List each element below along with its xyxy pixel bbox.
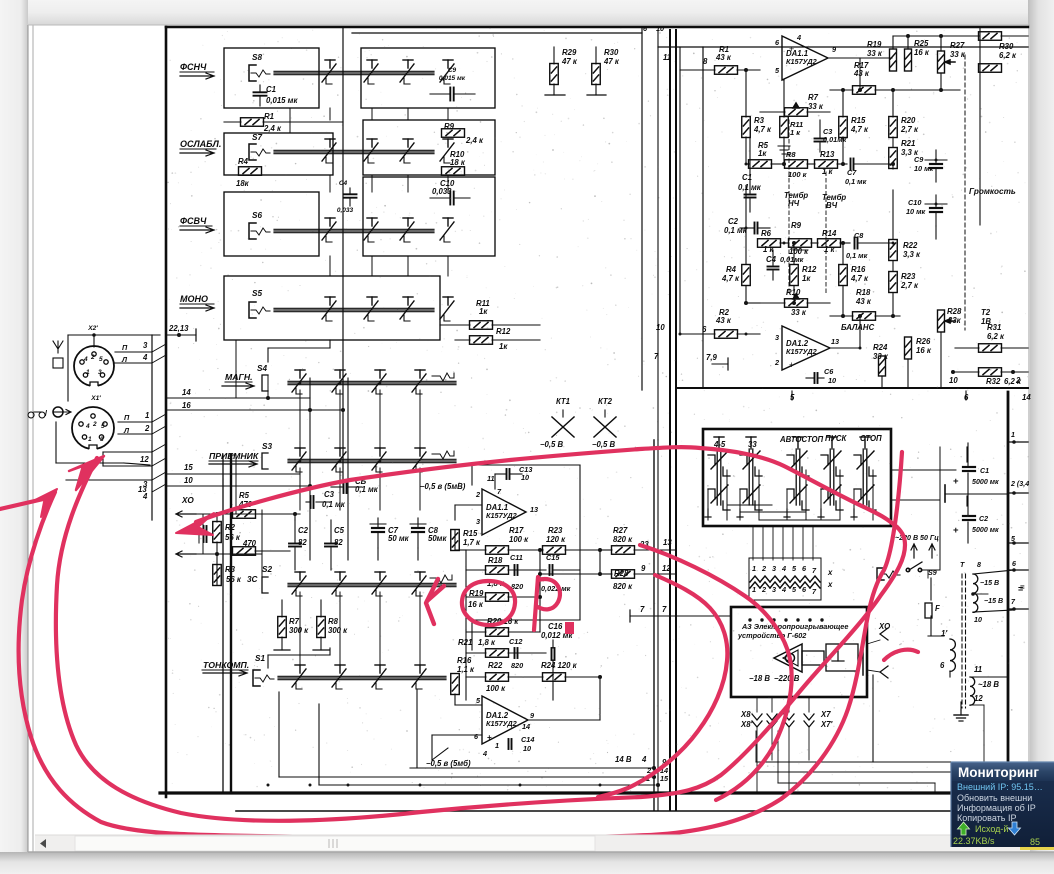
- svg-text:0,033: 0,033: [337, 207, 354, 214]
- svg-text:1к: 1к: [758, 149, 767, 158]
- svg-text:2: 2: [761, 564, 766, 573]
- svg-text:R9: R9: [791, 221, 802, 230]
- svg-text:4: 4: [796, 33, 801, 42]
- svg-text:1: 1: [88, 436, 92, 443]
- svg-text:6,2 к: 6,2 к: [999, 51, 1017, 60]
- svg-text:5000 мк: 5000 мк: [972, 526, 999, 534]
- svg-text:2: 2: [90, 354, 95, 361]
- svg-text:П: П: [122, 343, 128, 352]
- svg-text:C9: C9: [448, 67, 457, 74]
- svg-text:R16: R16: [457, 656, 472, 665]
- svg-text:15: 15: [660, 774, 669, 783]
- svg-text:0,015 мк: 0,015 мк: [266, 96, 298, 105]
- svg-text:8: 8: [703, 57, 708, 66]
- svg-text:10: 10: [656, 24, 664, 33]
- svg-text:0,1 мк: 0,1 мк: [355, 485, 379, 494]
- svg-text:S4: S4: [257, 364, 267, 373]
- svg-text:C16: C16: [548, 622, 563, 631]
- svg-text:S1: S1: [255, 654, 265, 663]
- svg-text:16 к: 16 к: [914, 48, 930, 57]
- svg-text:300 к: 300 к: [328, 626, 348, 635]
- svg-text:R16: R16: [851, 265, 866, 274]
- svg-text:2: 2: [92, 421, 97, 428]
- svg-text:13: 13: [831, 337, 839, 346]
- svg-text:−15 В: −15 В: [980, 579, 999, 587]
- svg-text:Обновить внешни: Обновить внешни: [957, 793, 1032, 803]
- svg-text:R15: R15: [463, 529, 478, 538]
- svg-text:82: 82: [334, 538, 343, 547]
- svg-text:Мониторинг: Мониторинг: [958, 765, 1039, 780]
- svg-text:14: 14: [522, 722, 530, 731]
- svg-text:Х7′: Х7′: [820, 720, 834, 729]
- svg-text:R8: R8: [786, 150, 796, 159]
- svg-text:10: 10: [184, 476, 193, 485]
- svg-text:7: 7: [662, 605, 667, 614]
- svg-text:ТОНКОМП.: ТОНКОМП.: [203, 660, 249, 670]
- svg-text:43 к: 43 к: [715, 316, 732, 325]
- svg-text:50 мк: 50 мк: [388, 534, 410, 543]
- svg-text:R29: R29: [562, 48, 577, 57]
- svg-text:3: 3: [143, 341, 148, 350]
- svg-text:6,2 к: 6,2 к: [987, 332, 1005, 341]
- svg-text:R24: R24: [873, 343, 888, 352]
- svg-text:R23: R23: [901, 272, 916, 281]
- svg-text:100 к: 100 к: [788, 170, 808, 179]
- svg-text:1: 1: [752, 585, 756, 594]
- svg-text:−0,5 В: −0,5 В: [540, 440, 564, 449]
- svg-text:C7: C7: [847, 168, 857, 177]
- svg-text:C15: C15: [546, 553, 560, 562]
- svg-text:МАГН.: МАГН.: [225, 372, 253, 382]
- svg-text:C14: C14: [521, 735, 534, 744]
- svg-text:R26: R26: [916, 337, 931, 346]
- svg-text:+: +: [953, 476, 959, 487]
- svg-text:3: 3: [772, 585, 776, 594]
- svg-text:3: 3: [98, 369, 102, 376]
- svg-text:12: 12: [974, 694, 983, 703]
- svg-text:МОНО: МОНО: [180, 294, 208, 304]
- svg-text:820: 820: [511, 661, 523, 670]
- svg-text:R4: R4: [726, 265, 737, 274]
- svg-text:R15: R15: [851, 116, 866, 125]
- svg-text:S5: S5: [252, 289, 262, 298]
- svg-text:ПУСК: ПУСК: [825, 434, 848, 443]
- svg-text:3: 3: [772, 564, 776, 573]
- svg-text:5000 мк: 5000 мк: [972, 478, 999, 486]
- svg-text:4: 4: [85, 423, 90, 430]
- svg-text:16: 16: [182, 401, 191, 410]
- svg-text:0,033: 0,033: [432, 187, 452, 196]
- svg-text:R21: R21: [458, 638, 472, 647]
- svg-text:5: 5: [99, 356, 103, 363]
- svg-text:1,8 к: 1,8 к: [478, 638, 496, 647]
- svg-text:R27: R27: [613, 526, 628, 535]
- svg-text:2 (3,4: 2 (3,4: [1010, 480, 1029, 488]
- svg-text:1: 1: [145, 411, 149, 420]
- svg-text:ФСВЧ: ФСВЧ: [180, 216, 207, 226]
- svg-text:C4: C4: [339, 180, 348, 187]
- svg-text:−0,5 в (5мВ): −0,5 в (5мВ): [420, 482, 466, 491]
- svg-text:1: 1: [1011, 431, 1015, 439]
- svg-text:13: 13: [663, 538, 672, 547]
- svg-text:33 к: 33 к: [867, 49, 883, 58]
- svg-text:4: 4: [83, 356, 88, 363]
- svg-text:0,1 мк: 0,1 мк: [845, 177, 867, 186]
- svg-text:R30: R30: [999, 42, 1014, 51]
- svg-text:33: 33: [748, 440, 757, 449]
- svg-text:10 мк: 10 мк: [906, 207, 926, 216]
- svg-text:Х8′: Х8′: [740, 720, 754, 729]
- svg-text:2,4 к: 2,4 к: [465, 136, 484, 145]
- svg-text:43 к: 43 к: [853, 69, 870, 78]
- svg-text:100 к: 100 к: [509, 535, 529, 544]
- svg-text:R12: R12: [496, 327, 511, 336]
- svg-text:18к: 18к: [236, 179, 250, 188]
- svg-text:R4: R4: [238, 157, 249, 166]
- svg-text:ХО: ХО: [181, 496, 194, 505]
- svg-text:R23: R23: [548, 526, 563, 535]
- svg-text:1к: 1к: [499, 342, 508, 351]
- svg-text:4,7 к: 4,7 к: [850, 125, 869, 134]
- svg-text:Громкость: Громкость: [969, 187, 1016, 196]
- svg-text:5: 5: [101, 423, 105, 430]
- svg-text:100 к: 100 к: [486, 684, 506, 693]
- svg-text:НЧ: НЧ: [788, 199, 800, 208]
- svg-text:R7: R7: [808, 93, 819, 102]
- svg-text:C1: C1: [266, 85, 276, 94]
- svg-text:R30: R30: [604, 48, 619, 57]
- svg-text:х: х: [827, 568, 833, 577]
- svg-text:R3: R3: [754, 116, 765, 125]
- svg-text:2: 2: [1015, 376, 1021, 385]
- svg-text:Копировать IP: Копировать IP: [957, 813, 1016, 823]
- svg-text:12: 12: [140, 455, 149, 464]
- svg-text:устройство Г-602: устройство Г-602: [737, 631, 806, 640]
- svg-text:К157УД2: К157УД2: [786, 347, 817, 356]
- svg-text:C8: C8: [854, 231, 864, 240]
- svg-text:S6: S6: [252, 211, 262, 220]
- svg-text:R21: R21: [901, 139, 915, 148]
- svg-text:85: 85: [1030, 837, 1040, 847]
- svg-text:10: 10: [949, 376, 958, 385]
- svg-text:33 к: 33 к: [791, 308, 807, 317]
- svg-text:3: 3: [775, 333, 779, 342]
- svg-text:C6: C6: [824, 367, 834, 376]
- svg-text:2,4 к: 2,4 к: [263, 124, 282, 133]
- svg-text:3,3 к: 3,3 к: [903, 250, 921, 259]
- svg-text:Т2: Т2: [981, 308, 991, 317]
- svg-text:R8: R8: [328, 617, 339, 626]
- svg-text:~18 В: ~18 В: [978, 680, 999, 689]
- svg-text:14 В: 14 В: [615, 755, 632, 764]
- svg-text:2: 2: [774, 358, 779, 367]
- svg-text:К157УД2: К157УД2: [486, 719, 517, 728]
- svg-text:−18 В: −18 В: [749, 674, 770, 683]
- svg-text:R12: R12: [802, 265, 817, 274]
- svg-text:C4: C4: [766, 255, 777, 264]
- svg-text:18 к: 18 к: [450, 158, 466, 167]
- svg-text:2: 2: [761, 585, 766, 594]
- svg-text:R14: R14: [822, 229, 837, 238]
- svg-text:C9: C9: [914, 155, 924, 164]
- svg-text:ОСЛАБЛ.: ОСЛАБЛ.: [180, 139, 221, 149]
- svg-text:10: 10: [828, 376, 836, 385]
- svg-text:1 к: 1 к: [790, 128, 801, 137]
- svg-text:C12: C12: [509, 637, 522, 646]
- svg-text:R25: R25: [914, 39, 929, 48]
- svg-text:Внешний IP: 95.15…: Внешний IP: 95.15…: [957, 782, 1043, 792]
- svg-text:2,7 к: 2,7 к: [900, 125, 919, 134]
- svg-text:1: 1: [752, 564, 756, 573]
- svg-text:1к: 1к: [802, 274, 811, 283]
- svg-text:АЗ Электропроигрывающее: АЗ Электропроигрывающее: [741, 622, 848, 631]
- svg-text:14: 14: [1022, 393, 1031, 402]
- svg-text:ХО: ХО: [878, 622, 890, 631]
- svg-text:11: 11: [487, 474, 495, 483]
- svg-text:13: 13: [530, 505, 538, 514]
- svg-text:0,1 мк: 0,1 мк: [724, 226, 748, 235]
- svg-text:−0,5 В: −0,5 В: [592, 440, 616, 449]
- svg-text:43 к: 43 к: [855, 297, 872, 306]
- svg-text:43 к: 43 к: [715, 53, 732, 62]
- svg-text:3С: 3С: [247, 575, 259, 584]
- svg-text:12: 12: [662, 564, 671, 573]
- svg-text:R22: R22: [903, 241, 918, 250]
- svg-text:П: П: [124, 413, 130, 422]
- svg-text:300 к: 300 к: [289, 626, 309, 635]
- svg-text:R18: R18: [856, 288, 871, 297]
- svg-text:R13: R13: [820, 150, 835, 159]
- svg-text:R19: R19: [867, 40, 882, 49]
- svg-text:−0,5 в (5мб): −0,5 в (5мб): [426, 759, 471, 768]
- svg-text:4,7 к: 4,7 к: [850, 274, 869, 283]
- svg-text:0,1 мк: 0,1 мк: [322, 500, 346, 509]
- svg-text:33к: 33к: [948, 316, 962, 325]
- svg-text:R7: R7: [289, 617, 300, 626]
- svg-text:=: =: [1020, 583, 1025, 592]
- svg-text:3: 3: [100, 436, 104, 443]
- svg-text:56 к: 56 к: [225, 533, 241, 542]
- svg-text:+: +: [953, 525, 959, 536]
- svg-text:0,01мк: 0,01мк: [780, 255, 804, 264]
- svg-text:11: 11: [663, 53, 671, 62]
- svg-text:4: 4: [641, 755, 647, 764]
- svg-text:−15 В: −15 В: [984, 597, 1003, 605]
- svg-text:Информация об IP: Информация об IP: [957, 803, 1036, 813]
- svg-text:R22: R22: [488, 661, 503, 670]
- svg-text:R32: R32: [986, 377, 1001, 386]
- svg-text:R28: R28: [947, 307, 962, 316]
- svg-text:Т: Т: [960, 561, 965, 569]
- svg-text:4: 4: [482, 749, 487, 758]
- svg-text:1к: 1к: [479, 307, 488, 316]
- svg-text:2: 2: [475, 490, 480, 499]
- svg-text:X1′: X1′: [90, 395, 101, 402]
- svg-text:R31: R31: [987, 323, 1001, 332]
- svg-text:C2: C2: [728, 217, 739, 226]
- svg-text:33 к: 33 к: [808, 102, 824, 111]
- svg-text:К157УД2: К157УД2: [486, 511, 517, 520]
- svg-text:R20: R20: [901, 116, 916, 125]
- svg-text:C10: C10: [908, 198, 921, 207]
- svg-text:0,015 мк: 0,015 мк: [439, 75, 466, 82]
- svg-text:11: 11: [974, 665, 982, 674]
- svg-text:820 к: 820 к: [613, 535, 633, 544]
- svg-text:4,7 к: 4,7 к: [753, 125, 772, 134]
- svg-text:S2: S2: [262, 565, 272, 574]
- svg-text:1 к: 1 к: [822, 167, 834, 176]
- svg-text:КТ2: КТ2: [598, 397, 613, 406]
- svg-text:КТ1: КТ1: [556, 397, 570, 406]
- svg-text:R9: R9: [444, 122, 455, 131]
- svg-text:56 к: 56 к: [226, 575, 242, 584]
- svg-text:C2: C2: [298, 526, 309, 535]
- svg-text:C3: C3: [324, 490, 335, 499]
- svg-text:16 к: 16 к: [916, 346, 932, 355]
- svg-text:14: 14: [182, 388, 191, 397]
- svg-text:S7: S7: [252, 133, 262, 142]
- svg-text:+: +: [789, 360, 794, 370]
- svg-text:R17: R17: [509, 526, 524, 535]
- svg-text:8: 8: [977, 561, 981, 569]
- svg-text:ФСНЧ: ФСНЧ: [180, 62, 207, 72]
- svg-text:6: 6: [1012, 560, 1016, 568]
- svg-text:F: F: [935, 604, 940, 613]
- svg-text:Исход-й: Исход-й: [975, 824, 1008, 834]
- svg-text:X2′: X2′: [87, 325, 98, 332]
- svg-text:7: 7: [640, 605, 645, 614]
- svg-text:33 к: 33 к: [950, 50, 966, 59]
- svg-text:22,13: 22,13: [168, 324, 189, 333]
- svg-text:C1: C1: [980, 467, 989, 475]
- svg-text:R6: R6: [761, 229, 772, 238]
- svg-text:3: 3: [476, 517, 480, 526]
- svg-text:х: х: [827, 580, 833, 589]
- svg-text:9: 9: [641, 564, 646, 573]
- svg-text:R27: R27: [950, 41, 965, 50]
- svg-text:82: 82: [298, 538, 307, 547]
- svg-text:7,9: 7,9: [706, 353, 718, 362]
- svg-text:C5: C5: [334, 526, 345, 535]
- svg-text:50мк: 50мк: [428, 534, 447, 543]
- svg-text:2: 2: [144, 424, 150, 433]
- svg-text:10: 10: [523, 744, 531, 753]
- svg-text:4: 4: [781, 585, 786, 594]
- svg-text:15: 15: [184, 463, 193, 472]
- svg-text:ВЧ: ВЧ: [826, 201, 838, 210]
- svg-text:R18: R18: [488, 556, 503, 565]
- svg-text:S8: S8: [252, 53, 262, 62]
- svg-text:22.37KB/s: 22.37KB/s: [953, 836, 995, 846]
- svg-text:ПРИЕМНИК: ПРИЕМНИК: [209, 451, 259, 461]
- svg-text:6: 6: [940, 661, 945, 670]
- svg-text:C2: C2: [979, 515, 988, 523]
- svg-text:4: 4: [781, 564, 786, 573]
- svg-text:2,7 к: 2,7 к: [900, 281, 919, 290]
- svg-text:1: 1: [495, 741, 499, 750]
- svg-text:К157УД2: К157УД2: [786, 57, 817, 66]
- svg-text:БАЛАНС: БАЛАНС: [841, 323, 875, 332]
- svg-text:S3: S3: [262, 442, 272, 451]
- svg-text:R5: R5: [239, 491, 250, 500]
- svg-text:4,7 к: 4,7 к: [721, 274, 740, 283]
- svg-text:10: 10: [656, 323, 665, 332]
- svg-text:4: 4: [142, 353, 148, 362]
- svg-text:−220 В: −220 В: [774, 674, 800, 683]
- svg-text:4: 4: [142, 492, 148, 501]
- svg-text:120 к: 120 к: [546, 535, 566, 544]
- svg-text:1,7 к: 1,7 к: [463, 538, 481, 547]
- svg-text:0,1 мк: 0,1 мк: [846, 251, 868, 260]
- svg-text:47 к: 47 к: [561, 57, 578, 66]
- svg-text:Х7: Х7: [820, 710, 831, 719]
- svg-text:47 к: 47 к: [603, 57, 620, 66]
- svg-text:R1: R1: [264, 112, 274, 121]
- svg-text:Х8: Х8: [740, 710, 751, 719]
- svg-text:+: +: [789, 44, 794, 54]
- svg-text:1: 1: [86, 369, 90, 376]
- svg-text:820 к: 820 к: [613, 582, 633, 591]
- svg-text:10: 10: [974, 616, 982, 624]
